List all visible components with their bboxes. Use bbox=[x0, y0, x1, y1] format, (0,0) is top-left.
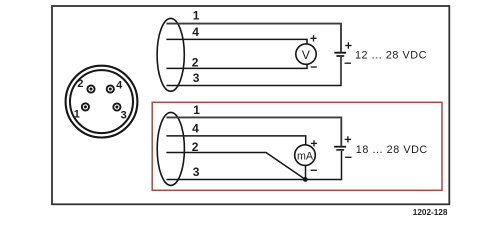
battery B1 (12...28 VDC supply) bbox=[334, 53, 346, 56]
voltmeter + label bbox=[310, 35, 316, 41]
svg-text:4: 4 bbox=[192, 25, 199, 39]
wire from milliammeter - to junction bbox=[305, 165, 307, 179]
wire 2 (bottom circuit, diagonal to junction) bbox=[166, 153, 305, 180]
connector J1 inner circle bbox=[70, 70, 133, 133]
svg-text:4: 4 bbox=[192, 122, 199, 136]
wire 1 (bottom circuit, to battery +) bbox=[166, 117, 341, 145]
milliammeter + label bbox=[311, 140, 317, 146]
svg-text:1: 1 bbox=[193, 9, 200, 23]
battery B2 + label bbox=[345, 136, 351, 142]
svg-text:1: 1 bbox=[193, 103, 200, 117]
pin 4 bbox=[107, 85, 114, 92]
battery B1 + label bbox=[345, 42, 351, 48]
svg-text:2: 2 bbox=[192, 56, 199, 70]
svg-text:3: 3 bbox=[193, 165, 200, 179]
svg-text:4: 4 bbox=[116, 80, 123, 92]
connector J1 outer circle bbox=[66, 66, 138, 138]
milliammeter - label bbox=[311, 169, 317, 171]
wire 2 (top circuit, to voltmeter -) bbox=[166, 64, 307, 68]
svg-text:3: 3 bbox=[121, 110, 127, 122]
pin 2 bbox=[87, 85, 94, 92]
svg-text:1: 1 bbox=[74, 109, 80, 121]
svg-text:18 ... 28 VDC: 18 ... 28 VDC bbox=[356, 144, 428, 156]
figure border frame bbox=[52, 6, 449, 204]
pin 1 bbox=[82, 103, 89, 110]
wire 3 (top circuit, to battery -) bbox=[166, 57, 341, 86]
svg-text:3: 3 bbox=[193, 71, 200, 85]
wire 3 (bottom circuit, to battery -) bbox=[166, 151, 341, 180]
wire 4 (top circuit, to voltmeter +) bbox=[166, 39, 307, 44]
junction node (wire 2 / wire 3 / mA) bbox=[303, 177, 308, 182]
battery B2 (18...28 VDC supply) bbox=[334, 147, 346, 150]
voltmeter V bbox=[296, 44, 316, 64]
cable shield ellipse (top circuit) bbox=[157, 18, 184, 91]
battery B2 - label bbox=[345, 156, 351, 158]
svg-text:2: 2 bbox=[192, 140, 199, 154]
svg-text:1202-128: 1202-128 bbox=[413, 208, 448, 216]
pin 3 bbox=[113, 103, 120, 110]
cable shield ellipse (bottom circuit) bbox=[157, 112, 184, 185]
wire 4 (bottom circuit, to milliammeter +) bbox=[166, 136, 305, 145]
svg-text:V: V bbox=[302, 48, 311, 62]
red highlight box (current-output wiring) bbox=[152, 102, 442, 190]
wire 1 (top circuit, to battery +) bbox=[166, 24, 341, 52]
battery B1 - label bbox=[345, 62, 351, 64]
svg-text:2: 2 bbox=[77, 78, 83, 90]
voltmeter - label bbox=[311, 66, 317, 68]
svg-text:mA: mA bbox=[297, 151, 314, 163]
milliammeter mA bbox=[295, 145, 316, 166]
svg-text:12 ... 28 VDC: 12 ... 28 VDC bbox=[355, 50, 427, 62]
